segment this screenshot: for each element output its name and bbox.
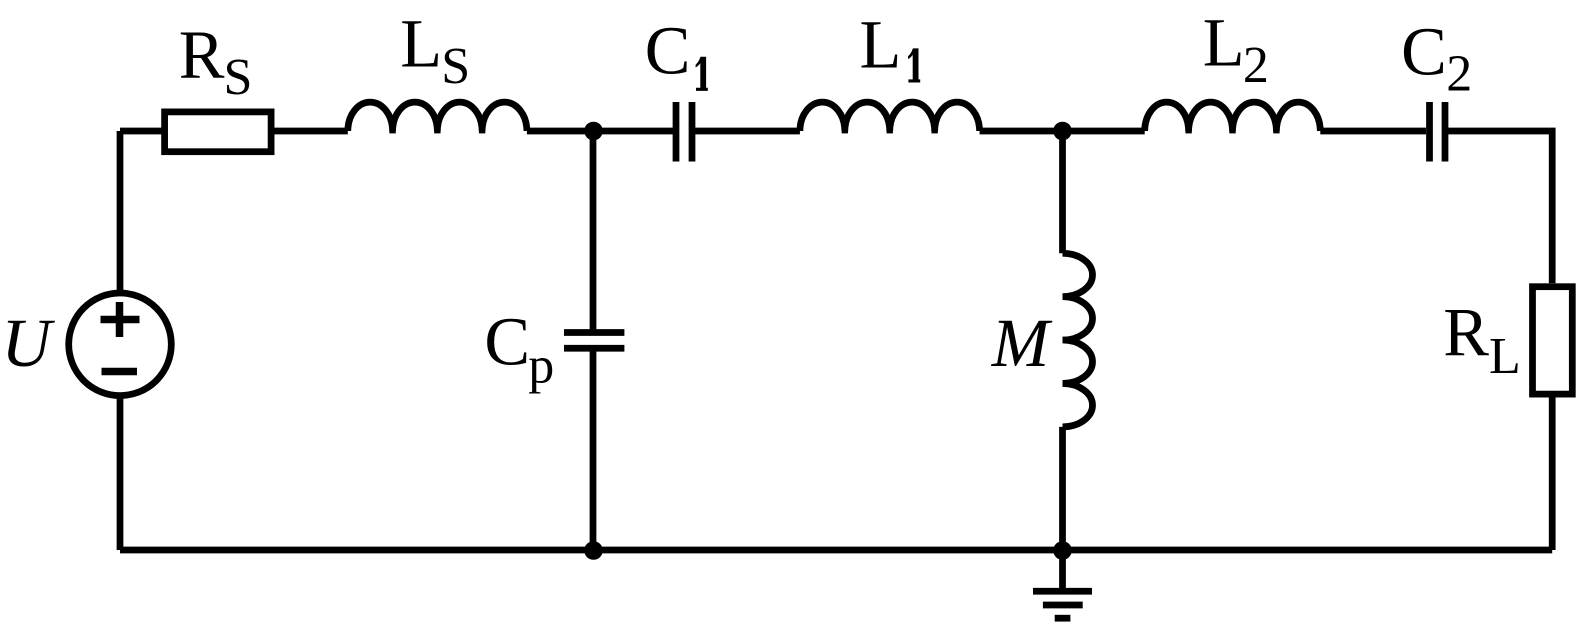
svg-text:L: L <box>860 6 902 82</box>
svg-text:S: S <box>224 49 253 106</box>
svg-text:R: R <box>1443 294 1489 370</box>
svg-text:M: M <box>991 305 1053 381</box>
svg-text:p: p <box>528 338 554 395</box>
svg-text:2: 2 <box>1446 46 1472 103</box>
svg-text:R: R <box>179 17 225 93</box>
svg-text:U: U <box>1 305 55 381</box>
svg-text:L: L <box>400 6 442 82</box>
svg-text:C: C <box>484 304 530 380</box>
svg-text:S: S <box>441 38 470 95</box>
svg-text:C: C <box>1401 13 1447 89</box>
svg-text:C: C <box>645 13 691 89</box>
svg-text:L: L <box>1489 328 1521 385</box>
svg-text:2: 2 <box>1243 37 1269 94</box>
svg-text:L: L <box>1203 5 1245 81</box>
